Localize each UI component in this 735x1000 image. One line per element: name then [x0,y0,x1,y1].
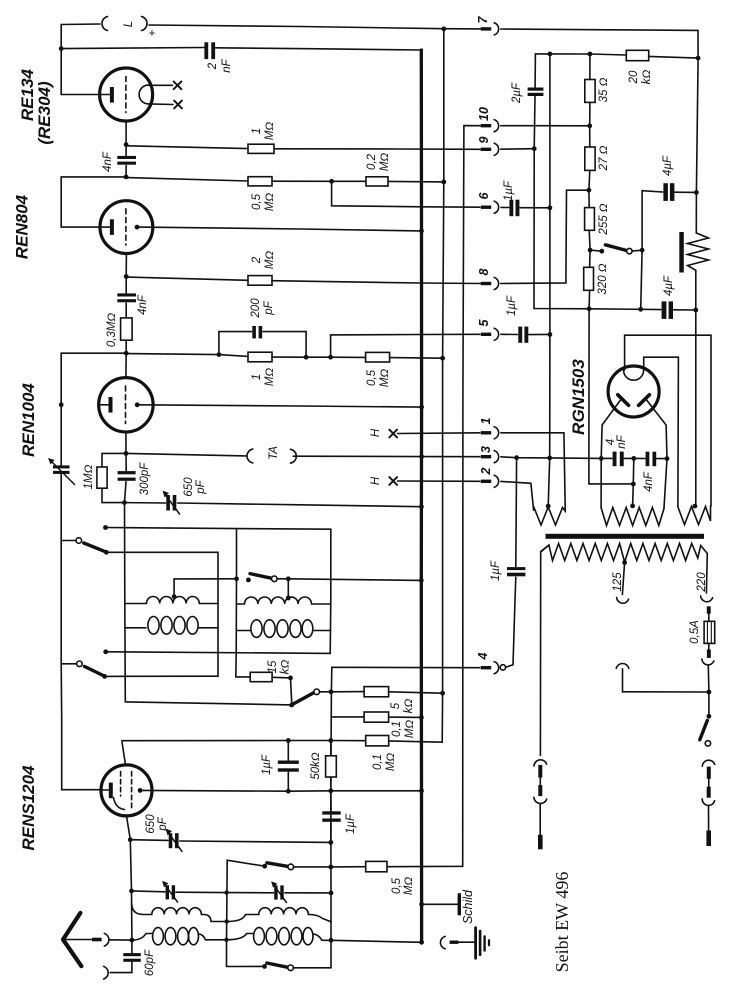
node on bus [419,405,424,410]
wire: from circle up to mains 1uF branch [506,577,516,667]
svg-text:255 Ω: 255 Ω [598,203,610,235]
switch S6 contacts blade [262,964,267,969]
node 650pF line start [122,500,127,505]
svg-text:MΩ: MΩ [404,720,416,739]
svg-text:1MΩ: 1MΩ [83,464,95,489]
node: L3 tap [286,596,291,601]
svg-text:kΩ: kΩ [280,660,292,675]
coil L2 lower-left bandfilter winding [125,627,146,629]
svg-text:MΩ: MΩ [264,368,276,387]
winding HV (middle) zigzag [601,508,664,526]
wire [272,180,366,182]
svg-text:1µF: 1µF [261,754,273,775]
svg-text:220: 220 [696,572,708,593]
svg-text:pF: pF [263,300,275,315]
RE134 anode bar [110,87,114,103]
RENS1204 screen hook [114,798,125,810]
svg-text:5: 5 [390,702,402,709]
svg-text:0,5: 0,5 [251,193,263,210]
svg-text:4nF: 4nF [643,471,655,492]
bus: thick chassis vertical [420,50,424,942]
switch S3 blade and circle [291,693,314,706]
wire: x61 vertical RE134 anode branch [61,25,99,95]
wire: below 1M to 650pF line [102,488,125,502]
speaker zigzag coil [688,233,709,270]
svg-text:1: 1 [479,417,493,424]
coil L3 upper-right bandfilter winding [237,597,331,604]
wire: REN804 grid L [61,177,126,227]
wire: TA line to bus and terminal 3 [293,455,480,458]
chassis Schild connection [419,902,424,907]
svg-text:1µF: 1µF [490,560,502,581]
node: 125V tap [622,560,627,565]
resistor R 50k [330,741,332,756]
svg-text:Seibt EW 496: Seibt EW 496 [552,872,572,973]
wire: terminal 4 line with corner down to x331 [332,666,480,668]
svg-text:20: 20 [628,70,640,84]
wire: S4 closed contact line [105,675,218,677]
resistor R 255 [588,190,590,207]
coil L6 oscillator upper-mid [227,908,331,922]
wire: line A continues down and right along y309 [534,96,661,309]
wire: trimmer line 3-4 [129,889,134,894]
wire: S5 left line corner down x227 [227,860,265,966]
fuse lower pin dash [707,650,711,658]
capacitor C 200pF loop [219,332,252,355]
terminal 3 pin [481,455,491,458]
wire: TA cathode line left part [126,453,246,456]
wire: S1 closed contact line to left filter frame [106,552,218,676]
svg-text:4µF: 4µF [662,155,674,176]
svg-text:pF: pF [157,816,169,831]
wire: REN1004 top lead [125,354,127,378]
wire: switch 1 upper contact line to right filter frame top [103,525,108,530]
node on bus [419,504,424,509]
wire to junction [707,666,710,692]
wire: 15k to switch3 pivot [272,677,292,705]
wire: terminal 5 line [331,334,480,357]
svg-text:6: 6 [477,191,491,199]
node [329,179,334,184]
capacitor C 1uF screen bypass [287,741,289,761]
jack TA right arc [291,449,297,463]
wire: tap riser right filter coil [287,579,289,598]
svg-text:H: H [370,428,382,437]
wire: line continues past terminal 3 to RGN area [501,457,601,459]
switch wiper on dropper [590,250,602,251]
trimmer arrow [51,461,75,485]
tube REN804 envelope [100,201,153,254]
svg-text:0,1: 0,1 [391,721,403,737]
wire: REN1004 grid corner [61,353,126,405]
svg-text:1: 1 [251,374,263,380]
node junction top line [441,27,446,32]
mains plug right pin [706,831,711,847]
resistor R 5k [331,691,364,693]
svg-text:MΩ: MΩ [264,251,276,270]
socket arc 220 [701,596,713,602]
terminal 6 pin [481,206,491,209]
wire: terminal 10 line continues to dropper chain [501,125,590,127]
svg-text:MΩ: MΩ [264,193,276,212]
trimmer capacitor (cathode) plates [53,465,70,468]
node cathode junction x61 [59,402,64,407]
resistor R 20k [626,50,648,60]
wire: selector to fuse line [623,669,709,692]
RE134 grid dashed line [125,77,127,113]
switch S4 pivot circle and blade [61,663,76,665]
wire: top line past terminal 7 to right edge [501,29,698,58]
wire: long vertical x443 (terminal 7 to bottom resistors) [389,29,444,742]
wire: 200pF/1M/0.5M line [126,354,248,357]
wire: long vertical x331 to bottom [330,692,333,968]
tube RE134 envelope [100,68,153,121]
svg-text:0,5: 0,5 [366,369,378,386]
svg-text:kΩ: kΩ [403,699,415,714]
svg-text:4µF: 4µF [663,275,675,296]
capacitor C 4nF right (anode) [634,457,645,459]
svg-text:650: 650 [183,477,195,497]
svg-text:2: 2 [479,467,493,475]
wire: HT right edge vertical [696,58,698,233]
node [124,274,129,279]
resistor R 35 [589,54,591,80]
node: output winding tap [693,504,698,509]
svg-text:+: + [149,28,156,40]
wire [388,180,444,183]
wire: 650pF line to bus [125,502,166,504]
svg-text:MΩ: MΩ [379,153,391,172]
resistor R 15k [250,672,272,681]
svg-text:4: 4 [476,652,490,660]
node on bus [419,229,424,234]
svg-text:MΩ: MΩ [264,122,276,141]
svg-text:4nF: 4nF [102,151,114,172]
wire: right filter frame left vertical x236 [236,529,250,677]
terminal 4 selector open circle [500,665,505,670]
winding mains primary zigzag [541,544,708,563]
svg-text:REN804: REN804 [13,194,32,259]
wire: terminal 6 tail [501,206,509,208]
node [124,175,129,180]
wire: HT top line y54 [535,54,626,55]
resistor R 0.1M second (RENS1204 anode) [366,736,389,746]
transformer core bar [546,534,705,539]
capacitor C 2uF [528,88,544,91]
RE134 filament arc [139,85,148,104]
node [225,919,229,923]
wire to junction [109,939,132,941]
ground socket arc and pin [440,936,445,948]
node 1uF mains branch [514,455,519,460]
earth socket arc [104,966,109,979]
REN1004 cathode bar [109,397,113,413]
node [441,180,446,185]
wire [272,356,366,358]
svg-text:125: 125 [612,572,624,592]
RE134 filament lead 2 with x [149,103,174,106]
wire: to bus bottom [331,940,422,942]
REN1004 anode dot and lead to bus [135,402,140,407]
wire [285,892,331,894]
svg-text:kΩ: kΩ [641,70,653,85]
wire: RE134 grid lead down [125,121,127,145]
capacitor C 60pF [131,940,133,953]
svg-text:1µF: 1µF [506,295,518,316]
svg-text:27 Ω: 27 Ω [598,145,610,171]
capacitor C 2nF [204,42,208,59]
svg-text:0,5: 0,5 [391,877,403,894]
REN804 grid dashed [125,209,127,245]
socket arc 125 [617,597,629,603]
resistor R 0.2M [366,177,388,186]
mains plug left pin [538,835,543,850]
mains plug left: arcs pins [534,760,547,766]
RGN1503 filament lead left (top) [625,335,711,506]
wire: terminal 2 continues to heater winding left end [501,481,534,510]
wire: left filter frame vertical x124 [125,503,292,705]
wire: terminal 1 continues to heater winding [501,433,565,508]
resistor R 0.5M bottom [366,861,387,871]
svg-text:5: 5 [477,318,491,326]
resistor R 2M [248,276,272,286]
earth ground symbol [474,928,477,959]
svg-text:50kΩ: 50kΩ [310,752,322,780]
wire: 220 tap lead [705,554,708,594]
node on x61 vertical [59,46,64,51]
svg-text:nF: nF [221,58,233,72]
svg-text:7: 7 [476,15,490,23]
wire: line B vertical [548,54,550,506]
svg-text:35 Ω: 35 Ω [598,77,610,102]
RENS1204 anode dot and lead to bus [138,788,143,793]
capacitor C 4nF left (anode) [599,456,604,461]
svg-text:pF: pF [195,479,207,494]
wire: chain bottom to HV centre tap riser [589,309,633,484]
node 5k junction [440,691,445,696]
svg-text:RENS1204: RENS1204 [19,765,38,851]
REN1004 grid dashed [125,386,127,424]
wire: 0.5M 0.2M line [126,178,248,182]
wire: line A top with 2uF [534,54,536,88]
capacitor C 4uF upper [642,191,663,192]
svg-text:H: H [370,476,382,485]
node: HV centre tap [630,504,635,509]
coil L5 oscillator upper-left [132,904,227,922]
RGN1503 anode lead left [601,400,620,458]
wire: x61 vertical below REN1004 to trimmer [60,405,62,466]
svg-text:0,3MΩ: 0,3MΩ [106,313,118,348]
trimmer arrow [164,883,178,902]
terminal 8 pin [481,282,491,285]
wire: top line to terminal 7 [149,25,481,29]
resistor R 0.5M mid [366,352,390,362]
trimmer arrow [273,883,287,902]
fuse 0,5A [708,614,710,622]
svg-text:1µF: 1µF [503,180,515,201]
svg-text:60pF: 60pF [144,949,156,976]
RE134 filament lead 1 with x [149,84,173,86]
jack L right arc [142,17,148,31]
svg-text:15: 15 [267,660,279,673]
RGN1503 anode lead right [647,400,667,459]
node: switch 3 pivot on bottom line [289,703,294,708]
node: switch 4 upper contact [103,649,108,654]
svg-text:300pF: 300pF [139,462,151,496]
speaker bar [679,232,684,273]
tube RGN1503 envelope [608,366,659,417]
antenna pin and socket arc [92,938,102,942]
wire: grid-leak line [126,146,248,149]
svg-text:4nF: 4nF [137,294,149,315]
jack TA left arc [247,449,253,463]
resistor R 1M grid RENS1204 [97,467,107,488]
svg-text:8: 8 [477,268,491,275]
wire: 4nF centre riser to HV tap [633,458,634,506]
svg-text:0,5A: 0,5A [689,620,701,644]
node [124,351,129,356]
wire: REN804 cathode lead down [125,254,127,277]
coil L8 antenna lower-mid [227,934,253,940]
resistor R 1M mid [248,352,272,362]
svg-text:1: 1 [251,128,263,134]
svg-text:RGN1503: RGN1503 [569,359,588,435]
trimmer capacitor 650pF plates [166,495,170,511]
trimmer capacitor plates (osc) [166,885,169,899]
wire after terminal 5 arc [501,333,518,335]
wire [125,340,127,353]
wire to line B [529,333,550,335]
RGN1503 filament lead right (top) [644,357,679,506]
terminal 5 pin [481,333,491,336]
wire: 650pF-2 line [130,839,168,842]
node on bus [419,454,424,459]
wire to terminal 9 [274,148,481,151]
wire to terminal 8 [272,281,481,284]
terminal 2 pin [481,480,491,483]
capacitor C 4uF lower [662,301,667,319]
terminal 1 pin [481,431,491,434]
RGN1503 filament arc [624,370,644,380]
REN804 cathode bar [110,219,114,235]
node [328,355,333,360]
socket arc below fuse [702,659,714,665]
antenna symbol [63,913,81,966]
wire: x61 vertical continues to switches and RENS1204 [61,474,101,789]
wire [390,357,443,360]
wire: L1 tap riser to switch 2 line [174,579,236,597]
tube REN1004 envelope [99,378,153,432]
wire [178,503,422,507]
trimmer capacitor plates (ant) [274,885,277,899]
wire: mains left lead [540,545,549,756]
wire: x642 riser (4uF top to switch and y309) [641,191,642,310]
resistor R 0.3M [121,318,133,340]
svg-text:1µF: 1µF [345,813,357,834]
resistor R 1M grid leak [248,144,274,153]
plug arc voltage selector [616,664,629,669]
terminal 10 pin [481,124,491,127]
node [440,356,445,361]
node [328,840,333,845]
node [217,352,222,357]
wire: 2nF line to bus top [216,48,422,50]
terminal 9 pin [481,148,491,151]
terminal 7 pin [481,27,491,30]
wire: terminal 8 continues to 27/255 node [501,190,589,283]
trimmer arrow [164,493,180,514]
node [124,451,129,456]
wire: S2 line to bus [277,579,421,581]
resistor R 27 [589,126,591,147]
wire: speaker to 4uF node and down to output winding [695,270,697,506]
wire: terminal 9 stub to line A [501,148,534,151]
wire: top HT+ line segment to L jack [61,23,100,26]
winding heater (left) zigzag [534,507,566,525]
svg-text:REN1004: REN1004 [19,383,38,457]
svg-text:9: 9 [477,136,491,143]
svg-text:MΩ: MΩ [379,369,391,388]
node line B [547,456,552,461]
svg-text:2: 2 [251,256,263,264]
svg-text:200: 200 [250,298,262,319]
node [329,938,334,943]
svg-text:2: 2 [207,62,219,70]
resistor R 320 [589,250,592,267]
svg-text:0,1: 0,1 [372,754,384,770]
svg-text:Schild: Schild [461,889,475,924]
svg-text:3: 3 [479,446,493,453]
node: L1 centre tap [172,594,177,599]
RGN1503 anode marks [618,395,629,406]
resistor R 0.5M [248,177,272,186]
capacitor C 1uF mains/terminal4 [515,458,518,567]
fuse pin dash [707,606,711,613]
switch S5 contacts blade [262,864,267,869]
RENS1204 cathode bar [109,783,113,799]
capacitor 4nF coupling RE134-REN804 [125,145,127,156]
switch S2 contacts and blade [234,576,239,581]
node: junction x331 [329,689,334,694]
tube RENS1204 envelope [101,765,152,816]
node: heater winding centre tap to line B [546,504,551,509]
switch S1 pivot circle and blade [61,540,76,542]
svg-text:650: 650 [145,814,157,834]
mains plug right: arcs pins [702,760,714,766]
trimmer capacitor 650pF-2 plates [169,833,173,848]
trimmer arrow [167,831,182,852]
svg-text:MΩ: MΩ [385,753,397,772]
wire: HV winding ends up to 4nF line [600,458,602,507]
coil L7 antenna lower-left [132,934,152,941]
ground: bus bottom junction [419,940,424,945]
mains switch [708,692,710,716]
wire: L to grid resistor 1M [102,453,126,467]
terminal 4 pin [481,666,491,669]
svg-text:0,2: 0,2 [366,153,378,170]
capacitor C 1uF terminal 6 [509,200,513,217]
winding output (right) zigzag [678,506,711,524]
wire [176,891,274,894]
svg-text:nF: nF [616,434,628,448]
RENS1204 grid dashed lines [120,772,122,797]
svg-text:TA: TA [268,446,280,460]
svg-text:(RE304): (RE304) [35,81,54,145]
wire: RENS1204 top lead to 0.1M line [122,741,126,765]
wire: 2M line [126,277,248,280]
node [304,355,309,360]
coil L1 upper-left bandfilter winding [125,597,218,604]
